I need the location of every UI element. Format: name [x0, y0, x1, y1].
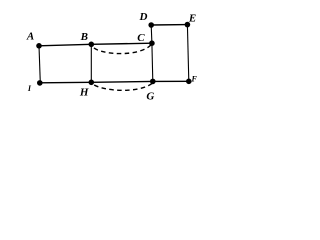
svg-text:D: D: [139, 11, 148, 23]
dashed arc B-C: [93, 44, 152, 53]
svg-text:E: E: [188, 13, 196, 25]
wire I-H: [40, 81, 91, 84]
wire H-G: [91, 80, 153, 83]
svg-text:A: A: [26, 31, 34, 43]
node C: [149, 40, 155, 46]
node H: [89, 80, 95, 86]
svg-text:B: B: [80, 31, 88, 43]
svg-text:G: G: [146, 90, 154, 102]
wire A-I: [39, 46, 40, 83]
node B: [89, 42, 95, 48]
wire C-G: [151, 43, 154, 81]
node E: [185, 22, 191, 28]
wire E-F: [187, 25, 188, 82]
wire B-C: [91, 43, 152, 44]
wire B-H: [90, 44, 92, 82]
node I: [37, 80, 43, 86]
svg-text:C: C: [137, 32, 145, 44]
wire D-E: [151, 24, 187, 26]
node A: [36, 43, 42, 49]
svg-text:I: I: [27, 84, 32, 93]
node G: [150, 79, 156, 85]
node D: [148, 22, 154, 28]
wire D-C: [150, 25, 153, 43]
wire G-F: [153, 80, 189, 82]
svg-text:H: H: [79, 87, 89, 99]
node F: [186, 79, 192, 85]
wire A-B: [39, 44, 91, 46]
dashed arc H-G: [93, 83, 152, 90]
svg-text:F: F: [191, 74, 198, 83]
